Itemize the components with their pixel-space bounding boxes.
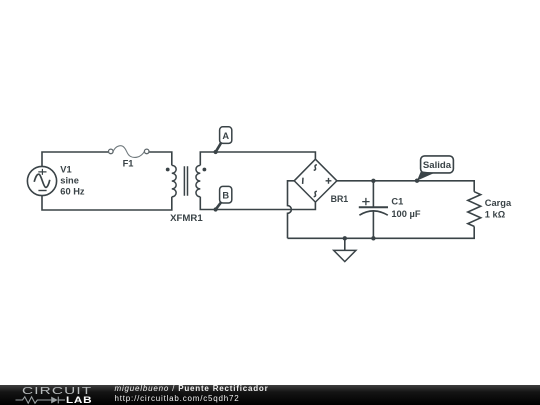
svg-text:Salida: Salida bbox=[423, 160, 452, 171]
label V1 sine 60 Hz bbox=[60, 165, 85, 197]
wire: secondary bottom (transformer to bridge bottom stem) bbox=[200, 197, 315, 210]
svg-text:BR1: BR1 bbox=[331, 194, 349, 204]
svg-text:F1: F1 bbox=[123, 159, 134, 169]
secondary winding bbox=[196, 165, 200, 196]
junction: cap bottom on - rail bbox=[371, 236, 375, 240]
wire: bottom negative rail bbox=[288, 226, 475, 238]
plus mark right bbox=[326, 178, 332, 184]
voltage source V1 bbox=[27, 166, 56, 195]
core bbox=[184, 166, 187, 196]
svg-text:sine: sine bbox=[60, 176, 79, 186]
wire: bridge + output rail to load bbox=[337, 181, 474, 192]
ac mark top bbox=[314, 165, 317, 171]
svg-text:100 µF: 100 µF bbox=[391, 209, 420, 219]
label C1 100 uF bbox=[391, 196, 420, 219]
wire: V1 top to fuse left bbox=[42, 152, 109, 167]
svg-text:60 Hz: 60 Hz bbox=[60, 187, 85, 197]
node flag Salida bbox=[415, 156, 454, 183]
transformer XFMR1 bbox=[166, 165, 207, 196]
node flag A bbox=[214, 127, 232, 154]
circuitlab logo schematic squiggle bbox=[15, 395, 66, 405]
svg-text:C1: C1 bbox=[391, 196, 403, 206]
minus mark left bbox=[302, 178, 304, 184]
node flag B bbox=[214, 186, 232, 211]
svg-text:A: A bbox=[222, 131, 229, 141]
resistor Carga (load) bbox=[468, 192, 481, 227]
junction: ground on - rail bbox=[343, 236, 347, 240]
junction: cap top on + rail bbox=[371, 179, 375, 183]
ac mark bottom bbox=[314, 191, 317, 197]
cap plus mark bbox=[362, 198, 369, 205]
wire: bridge - output with hop over B wire bbox=[288, 181, 295, 239]
svg-text:1 kΩ: 1 kΩ bbox=[485, 210, 506, 220]
fuse F1 bbox=[109, 146, 150, 158]
footer title line bbox=[115, 384, 269, 393]
svg-text:XFMR1: XFMR1 bbox=[170, 213, 203, 224]
bridge rectifier BR1 bbox=[294, 159, 337, 202]
svg-text:V1: V1 bbox=[60, 165, 71, 175]
label Carga 1 kOhm bbox=[485, 198, 512, 220]
capacitor C1 bbox=[359, 181, 388, 239]
svg-text:B: B bbox=[222, 190, 229, 200]
primary phase dot bbox=[166, 168, 170, 172]
wire: secondary top (transformer to bridge top vertex) bbox=[200, 152, 315, 165]
footer url line bbox=[115, 394, 240, 403]
wire: fuse right to transformer primary top bbox=[149, 152, 172, 165]
secondary phase dot bbox=[203, 168, 207, 172]
circuitlab logo text LAB bbox=[66, 395, 92, 405]
ground bbox=[334, 238, 356, 261]
circuitlab logo text CIRCUIT bbox=[22, 385, 92, 397]
primary winding bbox=[172, 165, 176, 196]
svg-text:Carga: Carga bbox=[485, 198, 512, 208]
wire: primary bottom (V1 to transformer) bbox=[42, 196, 172, 211]
footer bar bbox=[0, 385, 540, 405]
